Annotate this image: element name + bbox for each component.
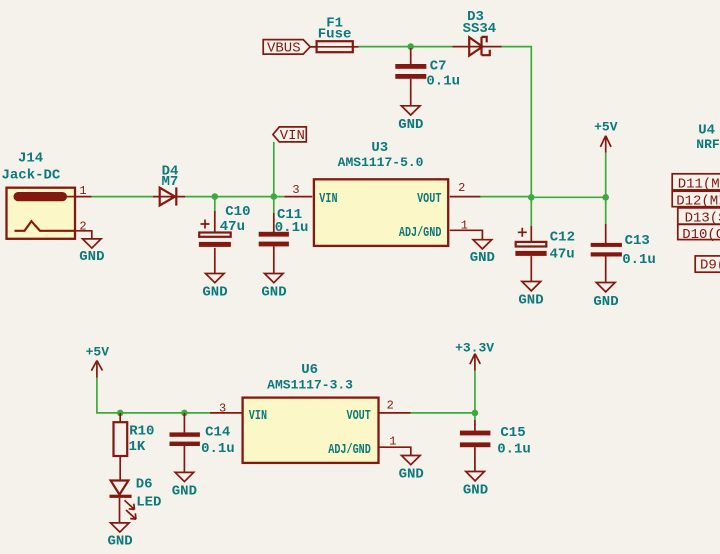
node junction at R10 — [117, 410, 124, 417]
svg-text:VIN: VIN — [280, 128, 305, 144]
diode D3 SS34 — [453, 9, 502, 56]
node junction at C11 — [271, 193, 278, 200]
svg-text:NRF: NRF — [696, 137, 720, 152]
capacitor C7 — [395, 48, 460, 106]
pin 1 U3 — [450, 218, 483, 239]
hier label VIN — [273, 127, 306, 144]
svg-text:D6: D6 — [136, 477, 153, 493]
svg-text:M7: M7 — [161, 174, 178, 190]
svg-text:2: 2 — [79, 219, 86, 233]
svg-text:R10: R10 — [129, 424, 154, 440]
svg-text:GND: GND — [463, 482, 488, 498]
power label VBUS — [263, 40, 310, 57]
svg-text:GND: GND — [518, 293, 543, 309]
svg-text:0.1u: 0.1u — [622, 252, 656, 268]
svg-text:1: 1 — [461, 218, 468, 232]
hier label D9 — [695, 256, 720, 274]
svg-text:C13: C13 — [625, 233, 650, 249]
power +3.3V — [455, 340, 494, 370]
op-amp U6 AMS1117-3.3 regulator — [243, 362, 379, 463]
svg-text:C14: C14 — [205, 425, 230, 441]
svg-text:AMS1117-3.3: AMS1117-3.3 — [267, 377, 353, 392]
pin 3 U3 — [285, 183, 313, 197]
diode D4 M7 — [153, 164, 185, 206]
svg-text:VOUT: VOUT — [347, 407, 371, 423]
wire D4 to U3 — [185, 196, 285, 198]
svg-text:2: 2 — [387, 399, 394, 413]
svg-text:Jack-DC: Jack-DC — [1, 168, 60, 184]
svg-text:47u: 47u — [220, 219, 245, 235]
resistor R10 — [114, 413, 155, 481]
svg-text:GND: GND — [593, 294, 618, 310]
svg-text:C10: C10 — [225, 204, 250, 220]
wire U3 VOUT to +5V rail — [481, 196, 532, 198]
svg-text:GND: GND — [470, 250, 495, 266]
ground C13 — [593, 283, 618, 311]
wire +3.3V to rail — [474, 371, 476, 413]
node junction at C14 — [181, 410, 188, 417]
capacitor C10 47u — [199, 197, 251, 274]
ground C10 — [202, 274, 227, 301]
hier label D12 — [672, 191, 720, 209]
node junction at C10 — [212, 193, 219, 200]
svg-text:3: 3 — [219, 401, 226, 415]
svg-text:U6: U6 — [301, 362, 318, 378]
wire +5V down to bottom rail — [97, 378, 210, 413]
svg-text:+5V: +5V — [86, 344, 110, 359]
ground U6 ADJ — [399, 456, 424, 483]
svg-text:ADJ/GND: ADJ/GND — [328, 442, 371, 458]
ground U3 ADJ — [470, 240, 495, 267]
pin 2 U3 — [450, 181, 481, 197]
svg-text:Fuse: Fuse — [318, 26, 352, 42]
svg-text:VIN: VIN — [249, 407, 267, 423]
svg-text:+5V: +5V — [594, 119, 618, 134]
svg-text:0.1u: 0.1u — [201, 441, 235, 457]
svg-text:ADJ/GND: ADJ/GND — [399, 224, 442, 240]
capacitor C13 0.1u — [591, 197, 656, 282]
fuse F1 — [310, 15, 358, 52]
ground C11 — [261, 274, 286, 301]
capacitor C11 0.1u — [259, 197, 309, 274]
wire J14 to D4 — [92, 196, 153, 198]
hier label D10 — [678, 224, 720, 243]
svg-text:VBUS: VBUS — [267, 41, 301, 57]
svg-text:3: 3 — [292, 183, 299, 197]
ground J14 — [79, 239, 104, 265]
svg-text:0.1u: 0.1u — [275, 220, 309, 236]
svg-text:GND: GND — [107, 534, 132, 550]
svg-text:C12: C12 — [550, 230, 575, 246]
svg-text:D11(MO: D11(MO — [678, 177, 720, 193]
node junction at C7 — [407, 43, 414, 50]
svg-text:VOUT: VOUT — [417, 191, 441, 207]
connector J14 Jack-DC — [1, 151, 75, 239]
svg-text:1: 1 — [389, 435, 396, 449]
wire fuse to D3 — [359, 46, 453, 48]
ground D6 — [107, 523, 132, 550]
svg-text:J14: J14 — [18, 151, 43, 167]
ground C7 — [398, 106, 423, 133]
capacitor C15 0.1u — [460, 413, 531, 472]
op-amp U3 AMS1117-5.0 regulator — [314, 140, 448, 246]
wire U6 VOUT to +3.3V rail — [411, 412, 475, 414]
wire VIN label down — [273, 142, 275, 197]
ground C12 — [518, 282, 543, 309]
hier label D13 — [678, 208, 720, 227]
pin 2 J14 — [75, 219, 92, 239]
power +5V bottom — [86, 344, 110, 377]
svg-text:U3: U3 — [371, 140, 388, 156]
svg-text:D9(: D9( — [700, 258, 720, 274]
svg-text:D10(C: D10(C — [682, 227, 720, 243]
svg-text:GND: GND — [398, 117, 423, 133]
node junction at C13 — [602, 194, 609, 201]
node junction at C12 — [528, 194, 535, 201]
svg-text:+3.3V: +3.3V — [455, 340, 494, 355]
U4 reference labels — [696, 123, 720, 152]
wire +5V to rail — [605, 153, 607, 198]
LED D6 — [110, 477, 162, 523]
wire C12 junction to C13 junction — [531, 196, 605, 198]
pin 1 U6 — [379, 435, 411, 456]
hier label D11 — [672, 174, 720, 193]
svg-text:0.1u: 0.1u — [426, 74, 460, 90]
ground C15 — [463, 472, 488, 499]
pin 2 U6 — [379, 399, 411, 413]
svg-text:VIN: VIN — [319, 191, 337, 207]
svg-text:1K: 1K — [128, 439, 145, 455]
capacitor C12 47u — [515, 197, 575, 281]
svg-text:C7: C7 — [430, 59, 447, 75]
svg-text:SS34: SS34 — [463, 21, 497, 37]
svg-text:GND: GND — [172, 484, 197, 500]
svg-text:GND: GND — [202, 285, 227, 301]
svg-text:0.1u: 0.1u — [497, 442, 531, 458]
svg-text:LED: LED — [136, 495, 161, 511]
wire D3 to +5V rail corner — [502, 47, 532, 198]
pin 1 J14 — [75, 184, 92, 198]
svg-text:GND: GND — [261, 285, 286, 301]
svg-text:AMS1117-5.0: AMS1117-5.0 — [338, 155, 424, 170]
svg-text:D12(MI: D12(MI — [676, 193, 720, 209]
power +5V top — [594, 119, 618, 152]
capacitor C14 0.1u — [170, 413, 235, 473]
svg-text:C15: C15 — [500, 425, 525, 441]
svg-text:2: 2 — [458, 181, 465, 195]
svg-text:1: 1 — [79, 184, 86, 198]
svg-text:47u: 47u — [549, 247, 574, 263]
pin 3 U6 — [210, 401, 243, 415]
svg-text:GND: GND — [79, 249, 104, 265]
node junction at C15 — [472, 410, 479, 417]
ground C14 — [172, 472, 197, 499]
svg-text:GND: GND — [399, 467, 424, 483]
